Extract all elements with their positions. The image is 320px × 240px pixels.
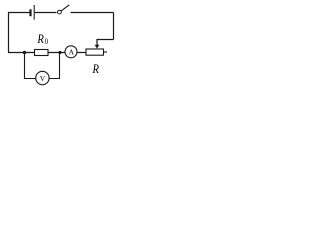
resistor R0 xyxy=(35,50,49,56)
svg-text:A: A xyxy=(69,48,75,57)
svg-text:V: V xyxy=(40,74,46,83)
svg-text:R0: R0 xyxy=(36,32,48,46)
wire top-left corner xyxy=(9,13,30,53)
ammeter A1 xyxy=(65,46,77,58)
wire battery to switch xyxy=(35,12,57,14)
wire voltmeter branch left xyxy=(25,53,36,79)
junction dot right xyxy=(58,51,61,54)
battery B1 xyxy=(31,5,35,20)
switch S1 xyxy=(58,5,70,14)
rheostat R xyxy=(86,49,107,55)
wire right vertical xyxy=(113,13,115,40)
junction dot left xyxy=(23,51,27,55)
wire ammeter to rheostat xyxy=(77,52,86,54)
wire to rheostat slider xyxy=(97,40,114,46)
svg-text:R: R xyxy=(92,62,99,76)
wire switch to top-right corner xyxy=(71,12,114,14)
wire R0 to ammeter xyxy=(48,52,65,54)
wire main left segment xyxy=(8,52,35,54)
voltmeter V1 xyxy=(36,71,49,84)
rheostat slider arrow xyxy=(95,45,100,49)
wire voltmeter branch right xyxy=(49,53,59,79)
